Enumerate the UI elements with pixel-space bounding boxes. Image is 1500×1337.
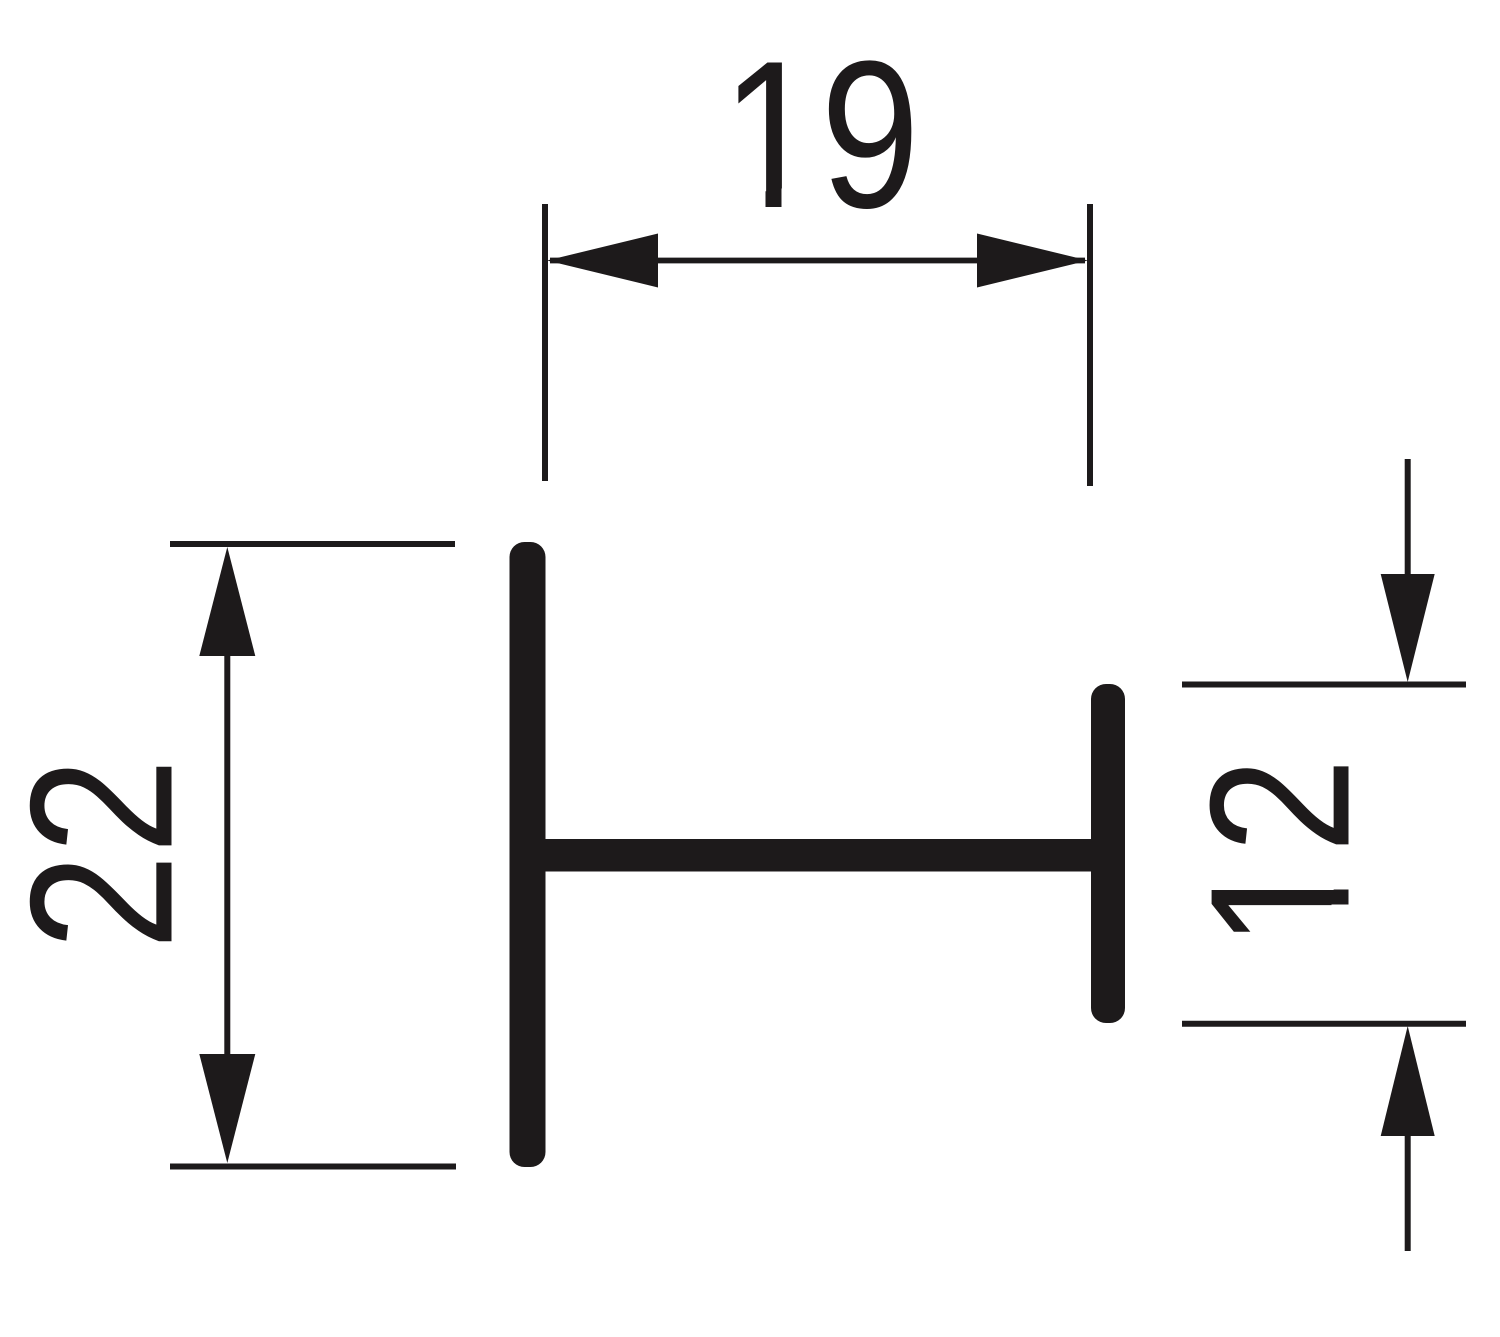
dim-12 bottom tick line [1182, 1021, 1466, 1027]
H-profile web [527, 839, 1110, 872]
H-profile right flange [1091, 684, 1125, 1023]
dim-22 bottom tick line [170, 1164, 456, 1170]
dim-22 top arrowhead [199, 547, 255, 656]
dim-12 value label serif masks [1332, 859, 1353, 890]
dim-12 top tick line [1182, 682, 1466, 688]
svg-text:22: 22 [0, 758, 215, 950]
dim-19 right extension line [1087, 204, 1093, 486]
dim-12 top arrow shaft [1405, 459, 1411, 578]
svg-text:12: 12 [1169, 758, 1391, 948]
dim-19 dimension line [550, 258, 1085, 264]
dim-19 left arrowhead [547, 234, 658, 288]
H-profile left flange [510, 542, 546, 1167]
dim-19 left extension line [542, 204, 548, 481]
dim-12 bottom arrowhead [1381, 1026, 1435, 1136]
dim-22 top tick line [170, 541, 455, 547]
dim-22 bottom arrowhead [199, 1054, 255, 1163]
dim-19 value label serif masks [733, 189, 766, 211]
dim-12 top arrowhead [1381, 574, 1435, 682]
dim-12 bottom arrow shaft [1405, 1132, 1411, 1251]
dim-19 right arrowhead [977, 234, 1088, 288]
dim-22 dimension line [224, 650, 230, 1058]
svg-text:19: 19 [721, 18, 920, 252]
